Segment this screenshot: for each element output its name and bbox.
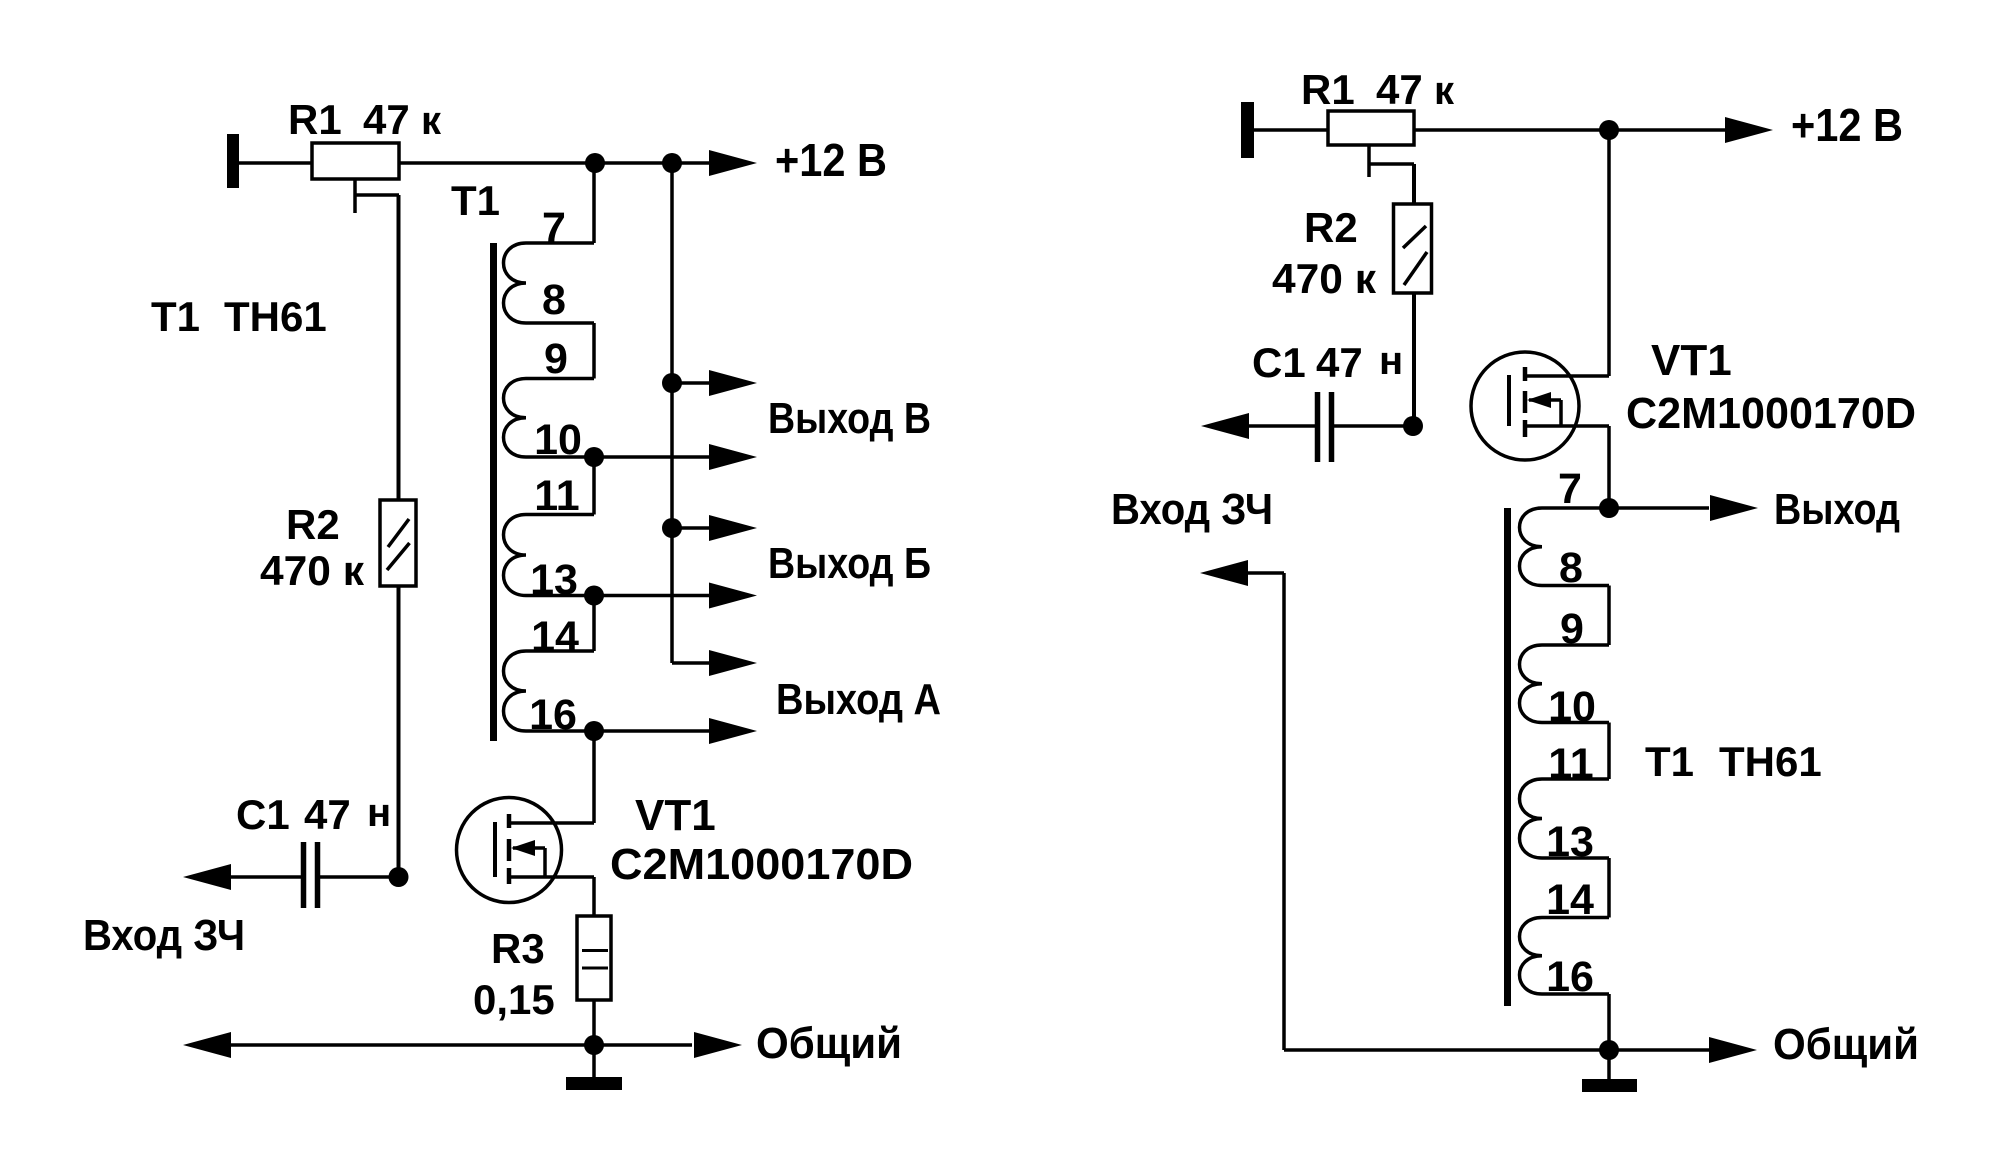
R1 tap: [353, 179, 357, 213]
terminal X1 (left input stub): [227, 134, 239, 188]
node: pin7 riser junction: [585, 153, 605, 173]
svg-text:7: 7: [542, 204, 566, 252]
rail +12 to drain (right): [1607, 130, 1611, 376]
T1 winding 14-16: [504, 651, 527, 731]
svg-text:47: 47: [304, 791, 351, 838]
link pins 8-9: [592, 323, 596, 379]
rail node B: [662, 373, 682, 393]
svg-text:14: 14: [531, 613, 579, 661]
rail node for Vyhod B lower: [662, 518, 682, 538]
svg-text:к: к: [421, 99, 442, 143]
svg-text:9: 9: [544, 335, 568, 383]
svg-text:R3: R3: [491, 925, 545, 972]
svg-text:9: 9: [1560, 605, 1584, 653]
transformer T1 core (right): [1504, 508, 1511, 1006]
pin 13 line to arrow: [526, 594, 709, 598]
pin 7 line with output (right): [1542, 506, 1609, 510]
pin 16 line (right): [1542, 992, 1609, 996]
svg-text:11: 11: [534, 472, 579, 520]
resistor R2 (right): [1412, 164, 1416, 204]
svg-text:47: 47: [1316, 339, 1363, 386]
svg-text:13: 13: [530, 556, 578, 604]
pin 11 line (right): [1542, 777, 1609, 781]
svg-text:Т1: Т1: [151, 293, 200, 340]
wire terminal to R1 (right): [1254, 128, 1328, 132]
svg-text:13: 13: [1546, 818, 1594, 866]
wire terminal to R1: [239, 161, 312, 165]
svg-text:н: н: [367, 791, 391, 835]
pin 9 line: [526, 377, 594, 381]
link pins 8-9 (right): [1607, 586, 1611, 646]
svg-text:VT1: VT1: [635, 791, 716, 840]
resistor R3: [577, 916, 611, 1000]
svg-text:C2M1000170D: C2M1000170D: [610, 840, 913, 889]
svg-text:470 к: 470 к: [1272, 255, 1377, 302]
svg-text:10: 10: [1548, 683, 1596, 731]
T1 winding 7-8 (right): [1520, 508, 1543, 586]
svg-text:16: 16: [1546, 953, 1594, 1001]
pin 14 line: [526, 649, 594, 653]
capacitor C1 (right): [1201, 413, 1249, 439]
svg-text:11: 11: [1548, 740, 1593, 788]
svg-text:+12 В: +12 В: [775, 134, 887, 186]
T1 winding 11-13 (right): [1520, 779, 1543, 858]
svg-text:Т1: Т1: [451, 177, 500, 224]
resistor R1 (right): [1328, 111, 1414, 145]
svg-text:Т1: Т1: [1645, 738, 1694, 785]
T1 winding 11-13: [504, 515, 527, 596]
node gate: [389, 867, 409, 887]
pin 9 line (right): [1542, 643, 1609, 647]
pin 11 line: [526, 513, 594, 517]
node: output rail junction: [662, 153, 682, 173]
input ground return wire (right): [1200, 560, 1248, 586]
wire R1 to +12V arrow: [399, 161, 709, 165]
T1 winding 9-10: [504, 379, 527, 458]
svg-text:16: 16: [529, 691, 577, 739]
svg-text:14: 14: [1546, 876, 1594, 924]
svg-text:Общий: Общий: [1773, 1020, 1919, 1069]
svg-text:Выход: Выход: [1774, 485, 1900, 534]
svg-text:Выход Б: Выход Б: [768, 539, 931, 588]
link pins 10-11: [592, 457, 596, 515]
svg-text:R1: R1: [1301, 66, 1355, 113]
wire pin16 to common (right): [1607, 994, 1611, 1050]
svg-text:R2: R2: [1304, 204, 1358, 251]
transistor VT1: [457, 798, 562, 903]
svg-text:к: к: [1434, 69, 1455, 113]
pin 8 line: [526, 321, 594, 325]
node gate (right): [1403, 416, 1423, 436]
svg-text:+12 В: +12 В: [1791, 99, 1903, 151]
svg-text:ТН61: ТН61: [224, 293, 327, 340]
T1 winding 14-16 (right): [1520, 918, 1543, 995]
svg-text:Выход А: Выход А: [776, 675, 941, 724]
svg-text:R1: R1: [288, 96, 342, 143]
svg-text:Вход ЗЧ: Вход ЗЧ: [1111, 485, 1273, 534]
svg-text:8: 8: [542, 276, 566, 324]
svg-text:47: 47: [1376, 66, 1423, 113]
svg-text:н: н: [1379, 339, 1403, 383]
transistor VT1 (right): [1471, 352, 1579, 460]
svg-text:С1: С1: [236, 791, 290, 838]
pin 13 line (right): [1542, 856, 1609, 860]
pin 10 line (right): [1542, 721, 1609, 725]
svg-text:C2M1000170D: C2M1000170D: [1626, 389, 1916, 438]
link pins 13-14 (right): [1607, 858, 1611, 918]
pin 16 line to arrow: [526, 729, 709, 733]
link pins 13-14: [592, 596, 596, 652]
link pins 10-11 (right): [1607, 723, 1611, 780]
output rail vertical: [670, 163, 674, 663]
ground (left): [592, 1045, 596, 1077]
svg-text:0,15: 0,15: [473, 976, 555, 1023]
common line arrow (right): [1609, 1048, 1709, 1052]
wire R1 to +12V (right): [1414, 128, 1725, 132]
capacitor C1: [183, 864, 231, 890]
pin 10 line to arrow: [526, 455, 709, 459]
wire riser to transformer pin 7: [592, 163, 596, 243]
wire pin16 to VT1 drain: [592, 731, 596, 823]
source to pin7 (right): [1607, 426, 1611, 508]
svg-text:VT1: VT1: [1651, 336, 1732, 385]
svg-text:Общий: Общий: [756, 1019, 902, 1068]
svg-text:Вход ЗЧ: Вход ЗЧ: [83, 911, 245, 960]
svg-text:Выход В: Выход В: [768, 394, 931, 443]
T1 winding 9-10 (right): [1520, 645, 1543, 723]
resistor R1: [312, 143, 399, 179]
ground (right): [1607, 1050, 1611, 1079]
node common (right): [1599, 1040, 1619, 1060]
T1 winding 7-8: [504, 243, 527, 323]
svg-text:ТН61: ТН61: [1719, 738, 1822, 785]
common line (left): [183, 1032, 231, 1058]
pin 8 line (right): [1542, 584, 1609, 588]
pin 7 line: [526, 241, 594, 245]
pin 14 line (right): [1542, 916, 1609, 920]
svg-text:470 к: 470 к: [260, 547, 365, 594]
svg-text:С1: С1: [1252, 339, 1306, 386]
transformer T1 core: [490, 243, 497, 741]
svg-text:8: 8: [1559, 544, 1583, 592]
R1 tap (right): [1367, 145, 1371, 177]
arrow +12V: [709, 150, 757, 176]
svg-text:10: 10: [534, 416, 582, 464]
terminal X1 (right input stub): [1241, 102, 1254, 158]
svg-text:47: 47: [363, 96, 410, 143]
svg-text:7: 7: [1558, 465, 1582, 513]
svg-text:R2: R2: [286, 501, 340, 548]
resistor R2: [397, 195, 401, 500]
